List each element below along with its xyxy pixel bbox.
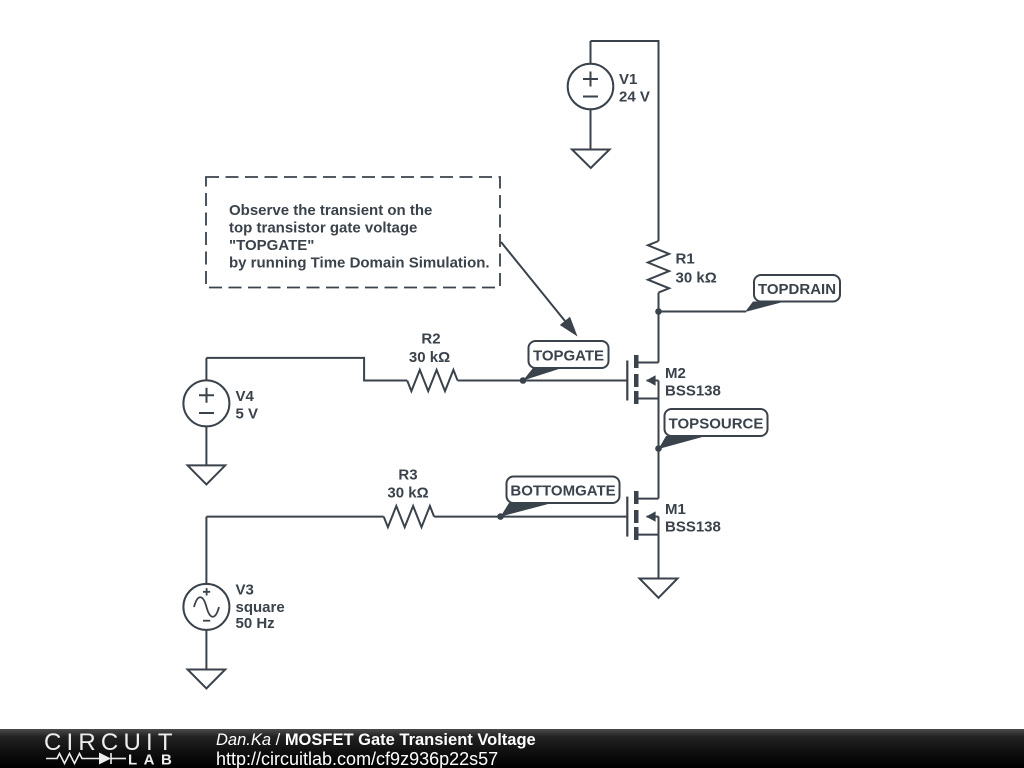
wire R2 to M2 gate — [458, 380, 628, 382]
wire R1 to node TOPDRAIN — [658, 293, 660, 312]
resistor R3 — [384, 506, 434, 527]
voltage source V1 — [568, 64, 614, 110]
svg-text:30 kΩ: 30 kΩ — [409, 349, 450, 366]
wire V3 top lead — [205, 517, 207, 584]
wire top rail V1 to R1 — [591, 41, 659, 241]
svg-text:square: square — [236, 599, 285, 616]
label M1 BSS138 — [665, 501, 721, 536]
wire V3 bottom lead — [205, 630, 207, 670]
svg-text:30 kΩ: 30 kΩ — [676, 270, 717, 287]
svg-text:30 kΩ: 30 kΩ — [387, 485, 428, 502]
voltage source V4 — [183, 380, 229, 426]
wire M1 source to ground — [658, 535, 660, 579]
label R2 30 kOhm — [409, 331, 450, 367]
ground below V4 — [188, 465, 226, 484]
svg-text:top transistor gate voltage: top transistor gate voltage — [229, 220, 417, 237]
svg-text:V3: V3 — [236, 582, 254, 599]
svg-text:BSS138: BSS138 — [665, 382, 721, 399]
svg-text:TOPSOURCE: TOPSOURCE — [669, 416, 764, 433]
wire node TOPDRAIN to M2 drain — [658, 312, 660, 363]
svg-text:"TOPGATE": "TOPGATE" — [229, 237, 314, 254]
transistor M2 BSS138 — [627, 355, 658, 404]
svg-text:R3: R3 — [398, 467, 417, 484]
net flag TOPSOURCE — [659, 409, 768, 449]
node TOPGATE junction dot — [520, 377, 527, 384]
wire V4 top lead — [205, 358, 207, 381]
svg-text:R2: R2 — [421, 331, 440, 348]
net flag BOTTOMGATE — [501, 477, 620, 517]
footer title — [216, 731, 536, 750]
node TOPSOURCE junction dot — [655, 445, 662, 452]
svg-text:5 V: 5 V — [236, 406, 259, 423]
footer url — [216, 749, 498, 768]
svg-text:M2: M2 — [665, 365, 686, 382]
ground below V1 — [572, 150, 610, 169]
label V3 square 50 Hz — [236, 582, 285, 633]
svg-text:V1: V1 — [619, 71, 637, 88]
wire V4 bottom lead — [205, 426, 207, 465]
wire V4 to R2 with jog — [206, 358, 407, 381]
svg-text:Observe the transient on the: Observe the transient on the — [229, 202, 432, 219]
ground below M1 — [640, 579, 678, 598]
svg-text:LAB: LAB — [128, 752, 178, 768]
label R3 30 kOhm — [387, 467, 428, 502]
node TOPDRAIN junction dot — [655, 308, 662, 315]
svg-text:M1: M1 — [665, 501, 686, 518]
label R1 30 kOhm — [676, 251, 717, 287]
resistor R1 — [648, 241, 669, 293]
svg-text:BSS138: BSS138 — [665, 519, 721, 536]
ground below V3 — [188, 670, 226, 689]
transistor M1 BSS138 — [627, 491, 658, 540]
svg-text:by running Time Domain Simulat: by running Time Domain Simulation. — [229, 255, 490, 272]
svg-text:TOPDRAIN: TOPDRAIN — [758, 281, 836, 298]
wire V3 to R3 — [206, 516, 383, 518]
label M2 BSS138 — [665, 365, 721, 400]
wire V1 top lead — [590, 41, 592, 64]
svg-text:BOTTOMGATE: BOTTOMGATE — [510, 483, 615, 500]
svg-text:R1: R1 — [676, 251, 695, 268]
annotation dashed note box — [206, 177, 500, 288]
net flag TOPGATE — [523, 341, 609, 381]
svg-text:50 Hz: 50 Hz — [236, 615, 275, 632]
CircuitLab logo — [0, 729, 200, 768]
svg-text:V4: V4 — [236, 388, 255, 405]
node BOTTOMGATE junction dot — [497, 513, 504, 520]
label V4 5 V — [236, 388, 259, 423]
footer bar — [0, 729, 1024, 768]
voltage source V3 square — [183, 584, 229, 630]
label V1 24 V — [619, 71, 650, 106]
wire M2 source to node TOPSOURCE — [658, 399, 660, 449]
annotation arrow to TOPGATE — [501, 242, 578, 337]
resistor R2 — [407, 370, 457, 391]
svg-text:TOPGATE: TOPGATE — [533, 348, 604, 365]
svg-text:24 V: 24 V — [619, 89, 650, 106]
wire V1 bottom lead — [590, 109, 592, 149]
wire node TOPSOURCE to M1 drain — [658, 449, 660, 499]
annotation text — [229, 202, 490, 272]
net flag TOPDRAIN — [745, 275, 840, 312]
wire node to TOPDRAIN flag — [659, 311, 747, 313]
wire R3 to M1 gate — [434, 516, 627, 518]
